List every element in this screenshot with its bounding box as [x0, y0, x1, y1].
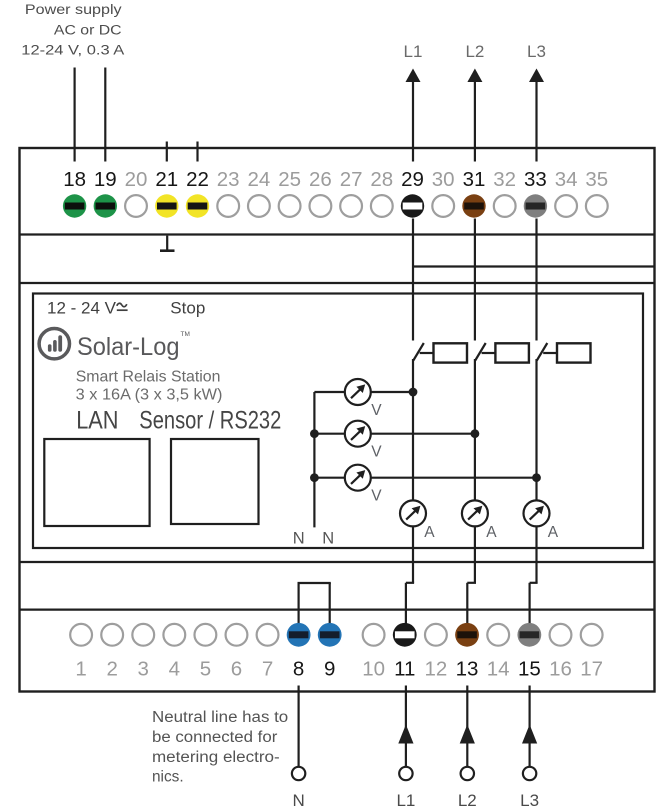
svg-text:27: 27 [340, 168, 363, 191]
svg-text:9: 9 [324, 658, 335, 681]
svg-text:nics.: nics. [152, 769, 184, 786]
svg-text:18: 18 [63, 168, 86, 191]
svg-text:17: 17 [580, 658, 603, 681]
svg-text:16: 16 [549, 658, 572, 681]
svg-text:L3: L3 [520, 791, 539, 810]
svg-text:31: 31 [463, 168, 486, 191]
svg-text:metering electro-: metering electro- [152, 749, 280, 766]
svg-text:L2: L2 [458, 791, 477, 810]
svg-text:20: 20 [125, 168, 148, 191]
svg-text:10: 10 [362, 658, 385, 681]
svg-text:3 x 16A (3 x 3,5 kW): 3 x 16A (3 x 3,5 kW) [76, 387, 223, 404]
svg-text:3: 3 [138, 658, 149, 681]
svg-text:AC or DC: AC or DC [54, 22, 122, 38]
svg-text:Stop: Stop [170, 299, 205, 318]
svg-text:1: 1 [75, 658, 86, 681]
svg-text:L2: L2 [465, 42, 484, 61]
svg-text:28: 28 [370, 168, 393, 191]
svg-text:TM: TM [181, 331, 190, 338]
svg-text:N: N [292, 791, 304, 810]
svg-text:L1: L1 [404, 42, 423, 61]
svg-text:11: 11 [394, 658, 415, 681]
svg-text:7: 7 [262, 658, 273, 681]
svg-text:6: 6 [231, 658, 242, 681]
svg-text:23: 23 [217, 168, 240, 191]
svg-text:5: 5 [200, 658, 211, 681]
svg-text:26: 26 [309, 168, 332, 191]
svg-text:L3: L3 [527, 42, 546, 61]
svg-text:35: 35 [585, 168, 608, 191]
svg-text:22: 22 [186, 168, 209, 191]
svg-text:12-24 V, 0.3 A: 12-24 V, 0.3 A [21, 43, 125, 59]
svg-text:21: 21 [155, 168, 178, 191]
svg-text:V: V [371, 444, 382, 461]
svg-text:Neutral line has to: Neutral line has to [152, 709, 288, 726]
svg-text:LAN: LAN [76, 407, 118, 435]
svg-text:2: 2 [106, 658, 117, 681]
svg-text:14: 14 [487, 658, 510, 681]
svg-text:Solar-Log: Solar-Log [77, 333, 180, 361]
svg-text:33: 33 [524, 168, 547, 191]
svg-text:4: 4 [169, 658, 180, 681]
svg-text:30: 30 [432, 168, 455, 191]
svg-text:A: A [424, 524, 435, 541]
svg-text:V: V [371, 488, 382, 505]
svg-text:N: N [322, 530, 334, 548]
svg-text:19: 19 [94, 168, 117, 191]
svg-text:29: 29 [401, 168, 424, 191]
svg-text:L1: L1 [396, 791, 415, 810]
svg-text:13: 13 [456, 658, 479, 681]
svg-text:Sensor / RS232: Sensor / RS232 [139, 407, 281, 435]
svg-text:12: 12 [424, 658, 447, 681]
svg-text:V: V [371, 402, 382, 419]
svg-text:A: A [548, 524, 559, 541]
svg-text:Power supply: Power supply [25, 2, 123, 18]
svg-text:24: 24 [247, 168, 270, 191]
svg-text:34: 34 [555, 168, 578, 191]
svg-text:15: 15 [518, 658, 541, 681]
svg-text:N: N [293, 530, 305, 548]
svg-text:be connected for: be connected for [152, 729, 277, 746]
svg-text:32: 32 [493, 168, 516, 191]
svg-text:12 - 24 V: 12 - 24 V [47, 299, 117, 318]
svg-text:25: 25 [278, 168, 301, 191]
svg-text:8: 8 [293, 658, 304, 681]
svg-text:Smart Relais Station: Smart Relais Station [76, 368, 221, 385]
svg-text:A: A [486, 524, 497, 541]
